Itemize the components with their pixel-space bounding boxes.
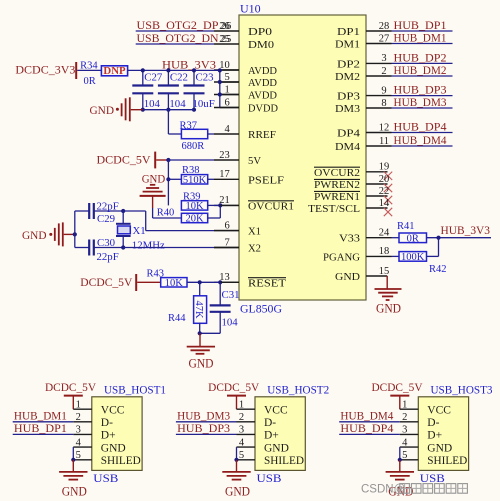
capacitor C22 104 xyxy=(167,70,169,85)
wire 5V node vertical to R38/R39 xyxy=(167,160,169,205)
resistor R41 0R xyxy=(399,233,427,243)
svg-text:25: 25 xyxy=(221,34,232,45)
net HUB_DM1 wire xyxy=(13,421,74,423)
svg-text:CSDN@: CSDN@ xyxy=(361,484,405,496)
svg-text:R43: R43 xyxy=(147,269,165,280)
net HUB_DM2 wire from pin 2 xyxy=(366,75,392,77)
connector USB_HOST3 body xyxy=(418,397,468,471)
pin 2 (D-) of USB_HOST3 xyxy=(400,421,419,423)
connector USB_HOST1 body xyxy=(92,397,142,471)
pin 4 (RREF) left-side pin wire, number and name xyxy=(214,133,239,135)
pin 25 (DM0) left-side pin wire, number and name xyxy=(214,43,239,45)
wire R37 to RREF pin 4 xyxy=(208,133,214,135)
net USB_OTG2_DP wire to pin 26 xyxy=(136,30,214,32)
svg-text:HUB_DM3: HUB_DM3 xyxy=(394,95,447,109)
svg-text:DP0: DP0 xyxy=(248,26,272,38)
wire cap rail to R37 xyxy=(167,110,169,134)
resistor R38 510K xyxy=(168,178,181,180)
pin 5 (SHILED) of USB_HOST3 xyxy=(400,459,419,461)
svg-text:C30: C30 xyxy=(97,237,115,249)
svg-text:USB: USB xyxy=(257,471,282,485)
pin 2 (D-) of USB_HOST1 xyxy=(73,421,92,423)
svg-text:R37: R37 xyxy=(180,120,198,131)
pin 20 unconnected stub with no-ERC cross xyxy=(366,183,388,185)
svg-text:HUB_3V3: HUB_3V3 xyxy=(441,223,491,237)
svg-text:R41: R41 xyxy=(397,221,415,232)
svg-text:D-: D- xyxy=(427,417,439,429)
svg-text:HUB_DP4: HUB_DP4 xyxy=(340,421,393,435)
wire GND pins 4-5 of USB_HOST3 xyxy=(399,447,401,460)
svg-text:PWREN2: PWREN2 xyxy=(314,179,360,191)
svg-text:R40: R40 xyxy=(157,207,175,218)
pin 22 unconnected stub with no-ERC cross xyxy=(366,195,388,197)
net HUB_DM1 wire from pin 27 xyxy=(366,43,392,45)
capacitor C31 104 xyxy=(219,282,221,305)
pin 1 (AVDD) left-side pin wire, number and name xyxy=(214,94,239,96)
svg-text:C27: C27 xyxy=(144,72,163,84)
svg-text:DM0: DM0 xyxy=(248,39,274,51)
svg-text:0R: 0R xyxy=(407,233,419,244)
svg-text:DM2: DM2 xyxy=(335,71,360,83)
svg-text:U10: U10 xyxy=(240,2,261,16)
svg-text:AVDD: AVDD xyxy=(248,90,277,102)
wire crystal to X1 pin 6 xyxy=(123,210,146,212)
net HUB_DP1 wire xyxy=(13,433,74,435)
svg-text:X2: X2 xyxy=(248,243,261,255)
pin 24 wire V33 xyxy=(366,237,392,239)
svg-text:5V: 5V xyxy=(248,155,261,167)
svg-text:D-: D- xyxy=(101,417,113,429)
resistor R39 10K xyxy=(181,201,207,210)
svg-text:HUB_DP1: HUB_DP1 xyxy=(14,421,67,435)
svg-text:22pF: 22pF xyxy=(97,200,119,212)
pin 3 (D+) of USB_HOST3 xyxy=(400,433,419,435)
wire R43 to RESET pin 13 xyxy=(187,281,220,283)
svg-text:R42: R42 xyxy=(429,264,447,275)
svg-text:R34: R34 xyxy=(80,60,98,71)
net HUB_DP4 wire xyxy=(339,433,400,435)
svg-text:GND: GND xyxy=(225,485,250,499)
pin 10 (AVDD) left-side pin wire, number and name xyxy=(214,69,239,71)
pin 4 (GND) of USB_HOST1 xyxy=(73,446,92,448)
svg-text:USB_OTG2_DN: USB_OTG2_DN xyxy=(137,31,219,45)
wire crystal ground rail xyxy=(73,232,77,236)
svg-text:28: 28 xyxy=(379,21,390,32)
pin 1 (VCC) of USB_HOST3 xyxy=(400,408,419,410)
net HUB_3V3 right xyxy=(427,237,492,239)
pin 6 (X1) left-side pin wire, number and name xyxy=(214,230,239,232)
svg-text:8: 8 xyxy=(381,98,386,109)
svg-text:PSELF: PSELF xyxy=(248,174,284,186)
svg-text:GND: GND xyxy=(22,228,47,242)
wire 5V node xyxy=(166,158,170,162)
svg-text:USB: USB xyxy=(420,471,445,485)
svg-text:3: 3 xyxy=(239,425,244,436)
pin 5 (SHILED) of USB_HOST1 xyxy=(73,459,92,461)
svg-text:DCDC_5V: DCDC_5V xyxy=(208,382,260,394)
svg-text:TEST/SCL: TEST/SCL xyxy=(308,203,360,215)
ground symbol USB_HOST2 xyxy=(236,460,238,472)
svg-text:SHILED: SHILED xyxy=(101,455,141,467)
svg-text:DM4: DM4 xyxy=(335,141,361,153)
svg-text:1: 1 xyxy=(224,84,229,95)
svg-text:2: 2 xyxy=(239,412,244,423)
svg-text:23: 23 xyxy=(219,150,230,161)
ground symbol USB_HOST3 xyxy=(399,460,401,472)
pin 18 wire PGANG xyxy=(366,255,392,257)
svg-text:USB_OTG2_DP: USB_OTG2_DP xyxy=(137,18,219,32)
svg-text:SHILED: SHILED xyxy=(264,455,304,467)
svg-text:USB_HOST3: USB_HOST3 xyxy=(431,384,493,396)
svg-text:AVDD: AVDD xyxy=(248,65,277,77)
net HUB_3V3 rail wire xyxy=(128,69,220,71)
capacitor C27 104 xyxy=(142,70,144,85)
svg-text:D+: D+ xyxy=(264,430,279,442)
svg-text:3: 3 xyxy=(76,425,81,436)
svg-text:7: 7 xyxy=(224,237,229,248)
svg-text:DP4: DP4 xyxy=(337,128,361,140)
resistor R34 0R marked DNP xyxy=(101,66,127,76)
svg-text:6: 6 xyxy=(224,97,229,108)
svg-text:USB_HOST2: USB_HOST2 xyxy=(267,384,329,396)
pin 5 (SHILED) of USB_HOST2 xyxy=(237,459,256,461)
svg-text:104: 104 xyxy=(144,98,161,110)
svg-text:R38: R38 xyxy=(182,165,200,176)
svg-text:6: 6 xyxy=(224,220,229,231)
svg-text:DCDC_3V3: DCDC_3V3 xyxy=(15,62,75,76)
net HUB_DP3 wire xyxy=(176,433,237,435)
svg-text:DVDD: DVDD xyxy=(248,103,278,115)
svg-text:HUB_DM2: HUB_DM2 xyxy=(394,63,447,77)
svg-text:2: 2 xyxy=(402,412,407,423)
pin 4 (GND) of USB_HOST3 xyxy=(400,446,419,448)
capacitor C23 10uF xyxy=(193,70,195,85)
svg-text:4: 4 xyxy=(402,437,408,448)
svg-text:24: 24 xyxy=(379,228,390,239)
pin 26 (DP0) left-side pin wire, number and name xyxy=(214,30,239,32)
svg-text:DM3: DM3 xyxy=(335,103,360,115)
resistor R44 47K (vertical) xyxy=(199,282,201,296)
pin 2 (D-) of USB_HOST2 xyxy=(237,421,256,423)
pin 19 unconnected stub with no-ERC cross xyxy=(366,171,388,173)
svg-text:D-: D- xyxy=(264,417,276,429)
svg-text:20K: 20K xyxy=(185,214,204,225)
svg-text:GND: GND xyxy=(62,485,87,499)
wire GND pins 4-5 of USB_HOST2 xyxy=(236,447,238,460)
svg-text:DCDC_5V: DCDC_5V xyxy=(97,152,151,166)
svg-text:AVDD: AVDD xyxy=(248,77,277,89)
svg-text:GND: GND xyxy=(376,301,401,315)
svg-text:1: 1 xyxy=(76,399,81,410)
svg-text:3: 3 xyxy=(381,53,386,64)
crystal X1 12MHz xyxy=(121,209,125,213)
svg-text:D+: D+ xyxy=(427,430,442,442)
svg-text:D+: D+ xyxy=(101,430,116,442)
svg-text:DNP: DNP xyxy=(103,65,126,77)
pin 7 (X2) left-side pin wire, number and name xyxy=(214,247,239,249)
wire crystal to X2 pin 7 xyxy=(123,247,214,249)
svg-text:10K: 10K xyxy=(165,278,184,289)
pin 4 (GND) of USB_HOST2 xyxy=(237,446,256,448)
wire R44/C31 bottom rail xyxy=(200,332,221,334)
svg-text:X1: X1 xyxy=(133,225,146,237)
net HUB_DP3 wire from pin 9 xyxy=(366,95,392,97)
svg-text:R39: R39 xyxy=(183,192,201,203)
net HUB_DP2 wire from pin 3 xyxy=(366,62,392,64)
svg-text:12MHz: 12MHz xyxy=(132,239,165,251)
net HUB_DM4 wire from pin 11 xyxy=(366,145,392,147)
svg-text:DCDC_5V: DCDC_5V xyxy=(372,382,424,394)
svg-text:PWREN1: PWREN1 xyxy=(314,191,360,203)
svg-text:GL850G: GL850G xyxy=(240,301,282,315)
svg-text:HUB_DP3: HUB_DP3 xyxy=(177,421,230,435)
svg-text:104: 104 xyxy=(169,98,186,110)
svg-text:GND: GND xyxy=(90,103,115,117)
svg-text:DCDC_5V: DCDC_5V xyxy=(45,382,97,394)
pin 21 (OVCUR1) left-side pin wire, number and name xyxy=(214,204,239,206)
svg-text:17: 17 xyxy=(219,169,230,180)
svg-text:2: 2 xyxy=(76,412,81,423)
ground symbol (earth) below R44 xyxy=(199,333,201,346)
pin 15 wire GND xyxy=(366,275,387,277)
connector USB_HOST2 body xyxy=(255,397,305,471)
pin 23 (5V) left-side pin wire, number and name xyxy=(214,159,239,161)
svg-text:2: 2 xyxy=(381,66,386,77)
pin 3 (D+) of USB_HOST2 xyxy=(237,433,256,435)
svg-text:5: 5 xyxy=(76,450,81,461)
svg-text:10uF: 10uF xyxy=(193,98,215,110)
svg-text:USB: USB xyxy=(93,471,118,485)
svg-text:18: 18 xyxy=(379,246,390,257)
svg-text:100K: 100K xyxy=(401,252,425,263)
svg-text:X1: X1 xyxy=(248,226,261,238)
ground symbol below pin 15 xyxy=(386,276,388,289)
net HUB_DM4 wire xyxy=(339,421,400,423)
svg-text:PGANG: PGANG xyxy=(323,251,360,263)
svg-text:C23: C23 xyxy=(196,72,214,84)
wire ground rail xyxy=(143,109,194,111)
svg-text:0R: 0R xyxy=(83,76,95,87)
net HUB_DM3 wire xyxy=(176,421,237,423)
pin 1 (VCC) of USB_HOST2 xyxy=(237,408,256,410)
pin 6 (DVDD) left-side pin wire, number and name xyxy=(214,107,239,109)
pin 13 (RESET) left-side pin wire, number and name xyxy=(214,281,239,283)
svg-text:V33: V33 xyxy=(339,233,360,245)
svg-text:GND: GND xyxy=(101,442,126,454)
svg-text:5: 5 xyxy=(224,72,229,83)
svg-text:RESET: RESET xyxy=(248,277,286,289)
pin 1 (VCC) of USB_HOST1 xyxy=(73,408,92,410)
svg-text:47K: 47K xyxy=(193,300,204,319)
svg-text:VCC: VCC xyxy=(264,405,288,417)
svg-text:RREF: RREF xyxy=(248,129,276,141)
svg-text:HUB_DM1: HUB_DM1 xyxy=(394,31,447,45)
svg-text:1: 1 xyxy=(239,399,244,410)
svg-text:5: 5 xyxy=(402,450,407,461)
svg-text:R44: R44 xyxy=(168,313,186,324)
svg-text:104: 104 xyxy=(222,317,239,329)
svg-text:DP2: DP2 xyxy=(337,58,360,70)
svg-text:510K: 510K xyxy=(183,175,207,186)
svg-text:22: 22 xyxy=(379,186,390,197)
svg-text:GND: GND xyxy=(189,356,214,370)
net HUB_DP1 wire from pin 28 xyxy=(366,30,392,32)
svg-text:26: 26 xyxy=(221,21,232,32)
op-amp U10 GL850G hub controller IC body xyxy=(239,15,366,300)
wire DCDC_3V3 to R34 xyxy=(77,69,101,71)
pin 17 (PSELF) left-side pin wire, number and name xyxy=(214,178,239,180)
svg-text:15: 15 xyxy=(379,266,390,277)
svg-text:20: 20 xyxy=(379,174,390,185)
wire GND pins 4-5 of USB_HOST1 xyxy=(72,447,74,460)
net HUB_DM3 wire from pin 8 xyxy=(366,107,392,109)
wire GND to R40 xyxy=(152,208,154,218)
net USB_OTG2_DN wire to pin 25 xyxy=(136,43,214,45)
svg-text:4: 4 xyxy=(239,437,245,448)
wire R42 up to HUB_3V3 node xyxy=(427,255,439,257)
svg-text:USB_HOST1: USB_HOST1 xyxy=(104,384,166,396)
svg-text:1: 1 xyxy=(402,399,407,410)
svg-text:4: 4 xyxy=(224,124,230,135)
svg-text:GND: GND xyxy=(264,442,289,454)
svg-text:C22: C22 xyxy=(170,72,188,84)
svg-text:680R: 680R xyxy=(182,141,205,152)
capacitor C30 22pF xyxy=(75,247,89,249)
svg-text:14: 14 xyxy=(379,198,390,209)
svg-text:VCC: VCC xyxy=(101,405,125,417)
svg-text:HUB_DM4: HUB_DM4 xyxy=(394,133,447,147)
pin 14 unconnected stub with no-ERC cross xyxy=(366,207,388,209)
svg-text:GND: GND xyxy=(427,442,452,454)
resistor R37 680K xyxy=(181,129,207,138)
svg-text:OVCUR2: OVCUR2 xyxy=(314,167,360,179)
svg-text:OVCUR1: OVCUR1 xyxy=(248,200,294,212)
resistor R42 100K xyxy=(399,252,427,262)
3V3 bus vertical to AVDD/DVDD pins xyxy=(219,70,221,107)
svg-text:HUB_DP4: HUB_DP4 xyxy=(394,120,447,134)
svg-text:DP1: DP1 xyxy=(337,26,360,38)
ground symbol USB_HOST1 xyxy=(72,460,74,472)
net HUB_DP4 wire from pin 12 xyxy=(366,132,392,134)
svg-text:DP3: DP3 xyxy=(337,91,360,103)
resistor R43 10K xyxy=(161,278,187,287)
resistor R40 20K xyxy=(181,213,207,222)
svg-text:9: 9 xyxy=(381,85,386,96)
wire R40 to OVCUR1 node xyxy=(208,217,221,219)
svg-text:11: 11 xyxy=(379,136,389,147)
pin 3 (D+) of USB_HOST1 xyxy=(73,433,92,435)
pin 5 (AVDD) left-side pin wire, number and name xyxy=(214,81,239,83)
svg-text:12: 12 xyxy=(379,122,390,133)
svg-text:VCC: VCC xyxy=(427,405,451,417)
svg-text:SHILED: SHILED xyxy=(427,455,467,467)
svg-text:5: 5 xyxy=(239,450,244,461)
svg-text:GND: GND xyxy=(142,172,166,186)
svg-text:27: 27 xyxy=(379,33,390,44)
svg-text:DCDC_5V: DCDC_5V xyxy=(80,275,132,289)
svg-text:C29: C29 xyxy=(97,213,115,225)
svg-text:3: 3 xyxy=(402,425,407,436)
svg-text:19: 19 xyxy=(379,162,390,173)
svg-text:4: 4 xyxy=(76,437,82,448)
svg-text:GND: GND xyxy=(335,271,360,283)
svg-text:DM1: DM1 xyxy=(335,39,360,51)
svg-text:C31: C31 xyxy=(222,289,240,301)
capacitor C29 22pF xyxy=(75,210,89,212)
svg-text:22pF: 22pF xyxy=(97,251,119,263)
